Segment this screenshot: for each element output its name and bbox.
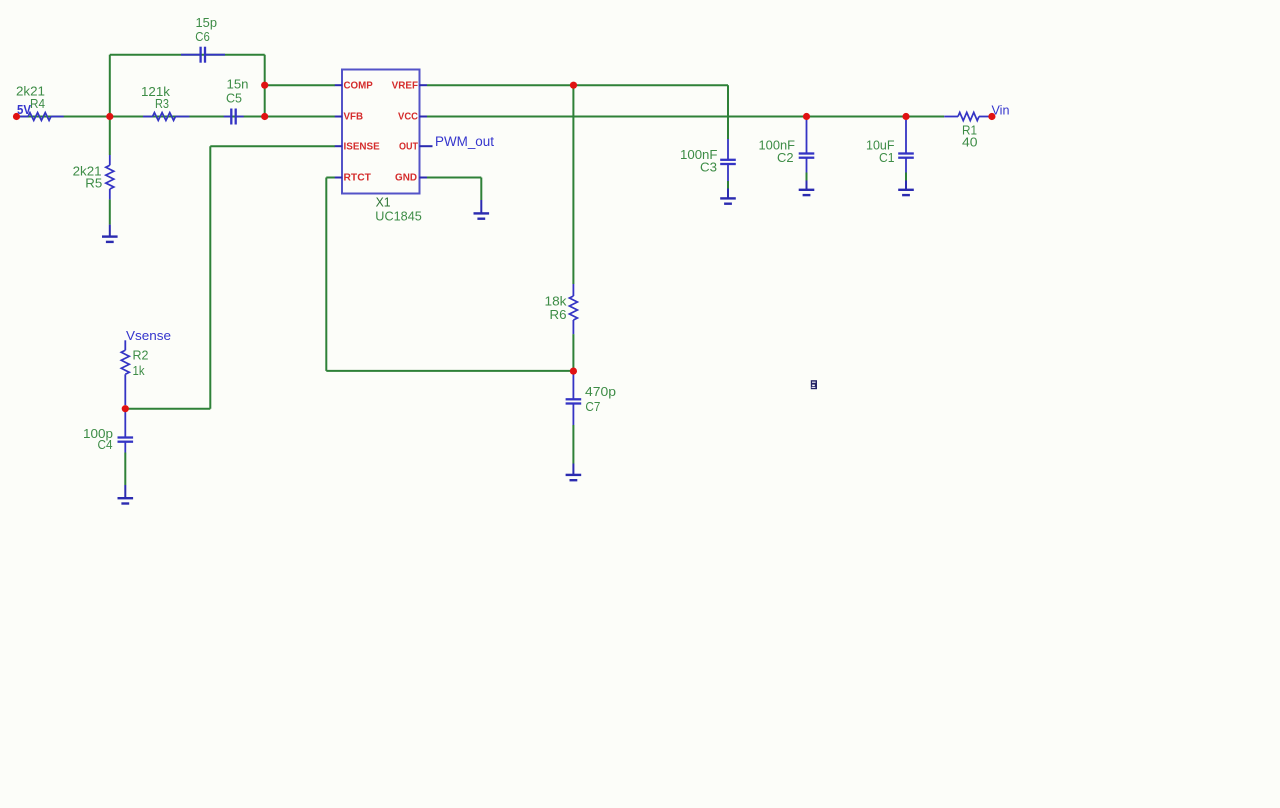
svg-text:GND: GND xyxy=(395,173,417,184)
svg-text:15n: 15n xyxy=(227,78,249,92)
svg-text:R6: R6 xyxy=(550,308,567,322)
svg-text:18k: 18k xyxy=(545,294,568,308)
svg-text:OUT: OUT xyxy=(399,141,418,152)
svg-text:VFB: VFB xyxy=(344,112,364,123)
svg-text:Vsense: Vsense xyxy=(126,328,171,343)
svg-text:Vin: Vin xyxy=(992,102,1010,117)
svg-text:C3: C3 xyxy=(700,160,717,174)
svg-text:C1: C1 xyxy=(879,151,895,165)
svg-text:C5: C5 xyxy=(226,91,242,105)
svg-text:UC1845: UC1845 xyxy=(375,208,422,223)
svg-text:C7: C7 xyxy=(585,400,600,414)
svg-text:COMP: COMP xyxy=(344,80,374,91)
svg-text:C2: C2 xyxy=(777,151,794,165)
svg-text:RTCT: RTCT xyxy=(344,173,371,184)
svg-text:VCC: VCC xyxy=(398,112,418,123)
svg-text:R3: R3 xyxy=(155,97,169,111)
svg-text:R2: R2 xyxy=(133,349,149,363)
svg-text:R4: R4 xyxy=(30,97,45,111)
svg-text:40: 40 xyxy=(962,136,978,150)
svg-text:5V: 5V xyxy=(17,102,31,117)
svg-text:C4: C4 xyxy=(98,438,113,452)
svg-text:PWM_out: PWM_out xyxy=(435,134,494,149)
svg-text:R5: R5 xyxy=(85,176,102,190)
svg-text:VREF: VREF xyxy=(392,80,418,91)
svg-text:ISENSE: ISENSE xyxy=(344,141,381,152)
svg-text:15p: 15p xyxy=(196,16,218,30)
svg-text:C6: C6 xyxy=(195,30,210,44)
svg-text:X1: X1 xyxy=(376,194,391,209)
svg-text:470p: 470p xyxy=(585,385,616,399)
svg-text:1k: 1k xyxy=(133,364,146,378)
